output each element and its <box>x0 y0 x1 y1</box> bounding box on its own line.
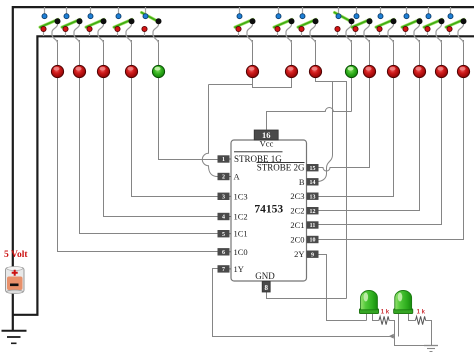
svg-text:3: 3 <box>222 195 225 201</box>
svg-text:1C2: 1C2 <box>234 212 248 222</box>
svg-text:9: 9 <box>311 252 314 258</box>
svg-text:7: 7 <box>222 267 225 273</box>
svg-text:1: 1 <box>222 157 225 163</box>
svg-text:Vcc: Vcc <box>260 138 274 148</box>
svg-text:2C2: 2C2 <box>290 206 304 216</box>
svg-text:13: 13 <box>310 194 316 200</box>
svg-text:15: 15 <box>310 166 316 172</box>
svg-text:5: 5 <box>222 232 225 238</box>
svg-text:4: 4 <box>222 215 225 221</box>
svg-text:2C0: 2C0 <box>290 235 304 245</box>
svg-text:12: 12 <box>310 209 316 215</box>
svg-text:2C3: 2C3 <box>290 191 304 201</box>
svg-text:A: A <box>234 172 241 182</box>
svg-text:2Y: 2Y <box>294 249 304 259</box>
svg-text:8: 8 <box>264 284 268 292</box>
svg-text:14: 14 <box>310 180 316 186</box>
svg-text:GND: GND <box>255 271 275 281</box>
svg-text:5 Volt: 5 Volt <box>4 250 28 260</box>
svg-text:1 k: 1 k <box>381 310 390 316</box>
svg-text:2: 2 <box>222 175 225 181</box>
svg-text:11: 11 <box>310 223 316 229</box>
svg-text:1Y: 1Y <box>234 264 244 274</box>
svg-text:B: B <box>299 177 305 187</box>
svg-text:74153: 74153 <box>254 204 283 216</box>
svg-text:1 k: 1 k <box>417 310 426 316</box>
svg-text:STROBE 2G: STROBE 2G <box>257 162 305 172</box>
svg-text:10: 10 <box>310 238 316 244</box>
svg-text:2C1: 2C1 <box>290 220 304 230</box>
svg-text:1C0: 1C0 <box>234 247 248 257</box>
svg-text:1C3: 1C3 <box>234 191 248 201</box>
svg-text:6: 6 <box>222 250 225 256</box>
svg-text:1C1: 1C1 <box>234 229 248 239</box>
